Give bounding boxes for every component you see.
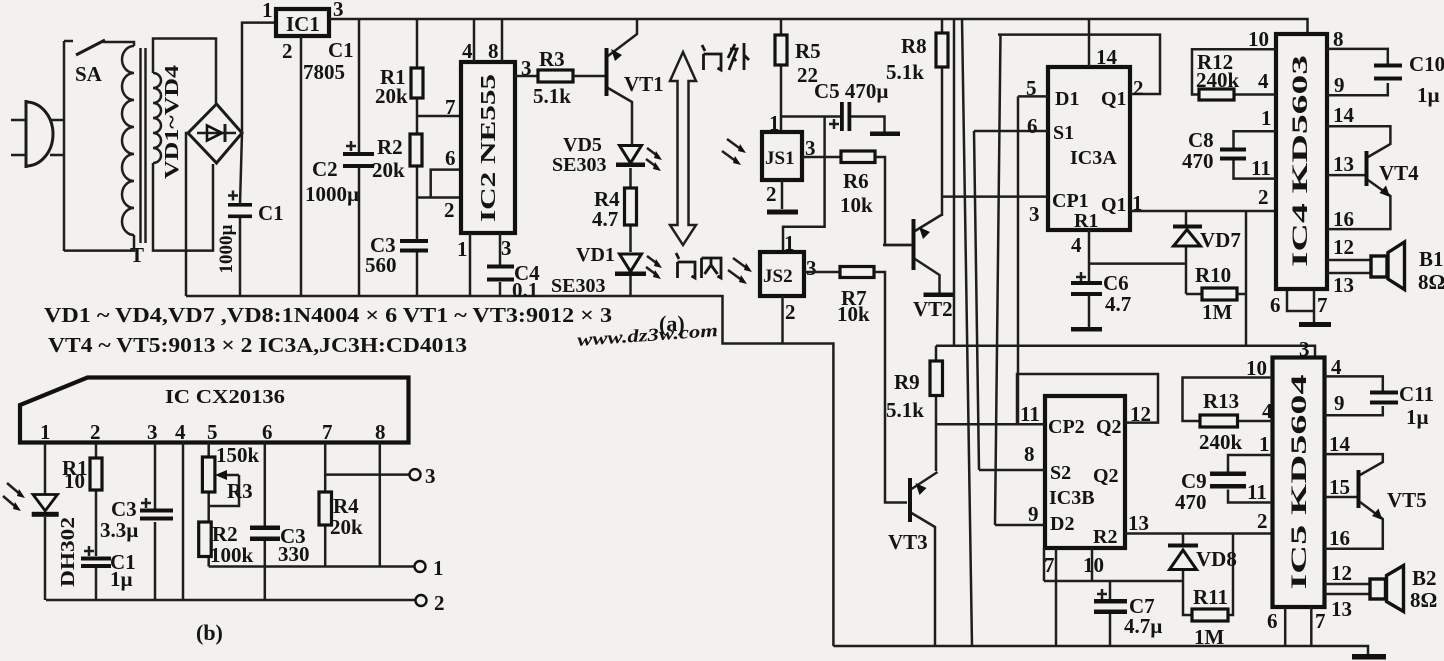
svg-text:9: 9 [1334, 391, 1345, 415]
svg-text:B1: B1 [1419, 247, 1444, 271]
svg-text:SA: SA [75, 62, 103, 86]
svg-text:1: 1 [433, 556, 444, 580]
svg-text:4.7µ: 4.7µ [1124, 614, 1162, 638]
svg-text:8: 8 [488, 39, 499, 63]
svg-text:C1: C1 [258, 201, 284, 225]
svg-text:11: 11 [1247, 480, 1267, 504]
svg-text:12: 12 [1333, 235, 1354, 259]
svg-text:D1: D1 [1055, 88, 1079, 110]
svg-text:2: 2 [434, 591, 445, 615]
svg-text:0.1: 0.1 [512, 278, 538, 302]
svg-text:1000µ: 1000µ [305, 182, 359, 206]
svg-text:6: 6 [1267, 609, 1278, 633]
svg-text:1: 1 [1261, 106, 1272, 130]
svg-text:240k: 240k [1199, 430, 1243, 454]
svg-text:330: 330 [278, 542, 310, 566]
svg-text:SE303: SE303 [552, 154, 606, 176]
svg-text:8Ω: 8Ω [1410, 588, 1437, 612]
svg-text:9: 9 [1028, 502, 1039, 526]
svg-text:VD7: VD7 [1200, 228, 1241, 252]
svg-text:16: 16 [1329, 526, 1350, 550]
svg-text:IC3A: IC3A [1070, 147, 1117, 169]
svg-text:20k: 20k [375, 84, 408, 108]
svg-text:10: 10 [1083, 553, 1104, 577]
svg-text:4.7: 4.7 [1105, 292, 1131, 316]
svg-text:4.7: 4.7 [592, 207, 618, 231]
svg-text:13: 13 [1333, 152, 1354, 176]
svg-text:2: 2 [90, 420, 101, 444]
svg-text:6: 6 [262, 420, 273, 444]
svg-text:2: 2 [785, 300, 796, 324]
svg-text:Q1: Q1 [1101, 194, 1127, 216]
svg-text:20k: 20k [330, 515, 363, 539]
svg-text:1: 1 [769, 111, 780, 135]
svg-text:11: 11 [1020, 402, 1040, 426]
svg-text:VD1~VD4: VD1~VD4 [161, 65, 183, 179]
svg-text:100k: 100k [210, 543, 254, 567]
svg-text:3: 3 [425, 464, 436, 488]
svg-text:16: 16 [1333, 207, 1354, 231]
svg-text:3: 3 [1029, 202, 1040, 226]
svg-text:11: 11 [1251, 156, 1271, 180]
svg-text:15: 15 [1329, 475, 1350, 499]
svg-text:10k: 10k [837, 302, 870, 326]
svg-text:10: 10 [64, 469, 85, 493]
svg-text:560: 560 [365, 253, 397, 277]
svg-text:2: 2 [444, 198, 455, 222]
svg-text:8Ω: 8Ω [1418, 270, 1444, 294]
svg-text:Q1: Q1 [1101, 88, 1127, 110]
svg-text:4: 4 [1258, 69, 1269, 93]
svg-text:C1: C1 [328, 38, 354, 62]
svg-text:4: 4 [462, 39, 473, 63]
svg-text:R11: R11 [1193, 585, 1228, 609]
svg-text:VT2: VT2 [913, 297, 953, 321]
svg-text:3: 3 [806, 256, 817, 280]
svg-text:3: 3 [1299, 337, 1310, 361]
svg-text:470: 470 [1175, 490, 1207, 514]
svg-text:2: 2 [766, 182, 777, 206]
svg-text:2: 2 [1257, 509, 1268, 533]
svg-text:(b): (b) [196, 620, 223, 645]
svg-text:2: 2 [1133, 76, 1144, 100]
svg-text:13: 13 [1128, 511, 1149, 535]
svg-text:5.1k: 5.1k [886, 398, 924, 422]
svg-text:IC3B: IC3B [1049, 487, 1095, 509]
svg-text:20k: 20k [372, 158, 405, 182]
svg-text:1: 1 [1132, 191, 1143, 215]
svg-text:IC2 NE555: IC2 NE555 [476, 74, 500, 222]
svg-text:VD8: VD8 [1196, 547, 1237, 571]
svg-text:R2: R2 [377, 135, 403, 159]
svg-text:SE303: SE303 [551, 275, 605, 297]
svg-text:7: 7 [445, 95, 456, 119]
svg-text:1000µ: 1000µ [216, 224, 237, 273]
svg-text:R2: R2 [1093, 526, 1117, 548]
svg-text:470: 470 [1182, 149, 1214, 173]
svg-text:IC1: IC1 [286, 12, 320, 36]
svg-text:1: 1 [1259, 432, 1270, 456]
svg-text:13: 13 [1333, 273, 1354, 297]
svg-text:2: 2 [1258, 185, 1269, 209]
svg-text:5: 5 [1026, 76, 1037, 100]
svg-text:8: 8 [375, 420, 386, 444]
svg-text:R3: R3 [539, 47, 565, 71]
svg-text:7805: 7805 [303, 60, 345, 84]
svg-text:4: 4 [1262, 399, 1273, 423]
svg-text:1: 1 [457, 237, 468, 261]
svg-text:3: 3 [501, 236, 512, 260]
svg-text:3.3µ: 3.3µ [100, 518, 138, 542]
svg-text:150k: 150k [216, 443, 260, 467]
svg-text:1µ: 1µ [110, 567, 133, 591]
svg-text:1: 1 [262, 0, 273, 22]
svg-text:VT1: VT1 [624, 72, 664, 96]
svg-text:6: 6 [445, 146, 456, 170]
svg-text:R1: R1 [1074, 210, 1098, 232]
svg-text:9: 9 [1334, 73, 1345, 97]
svg-text:R13: R13 [1203, 389, 1239, 413]
svg-text:1µ: 1µ [1417, 83, 1440, 107]
svg-text:3: 3 [147, 420, 158, 444]
svg-text:VT3: VT3 [888, 530, 928, 554]
svg-text:VT5: VT5 [1387, 488, 1427, 512]
svg-text:12: 12 [1331, 561, 1352, 585]
svg-text:8: 8 [1024, 442, 1035, 466]
svg-text:IC CX20136: IC CX20136 [165, 386, 285, 408]
svg-text:VD1: VD1 [576, 244, 615, 266]
svg-text:14: 14 [1333, 103, 1355, 127]
svg-text:VD5: VD5 [563, 134, 602, 156]
svg-text:C2: C2 [312, 157, 338, 181]
svg-text:C10: C10 [1409, 52, 1444, 76]
svg-text:5.1k: 5.1k [533, 84, 571, 108]
svg-text:12: 12 [1130, 402, 1151, 426]
svg-text:7: 7 [1044, 553, 1055, 577]
svg-text:C5 470µ: C5 470µ [814, 79, 889, 103]
svg-text:13: 13 [1331, 597, 1352, 621]
svg-text:DH302: DH302 [57, 517, 79, 587]
svg-text:JS2: JS2 [763, 266, 793, 287]
svg-text:VT4: VT4 [1379, 161, 1419, 185]
svg-text:4: 4 [175, 420, 186, 444]
svg-text:14: 14 [1329, 432, 1351, 456]
svg-text:10: 10 [1248, 27, 1269, 51]
svg-text:7: 7 [1317, 293, 1328, 317]
svg-text:240k: 240k [1196, 68, 1240, 92]
svg-text:5.1k: 5.1k [886, 60, 924, 84]
svg-text:JS1: JS1 [765, 148, 795, 169]
svg-text:CP1: CP1 [1052, 190, 1089, 212]
svg-text:5: 5 [207, 420, 218, 444]
svg-text:2: 2 [282, 39, 293, 63]
svg-text:Q2: Q2 [1096, 416, 1122, 438]
svg-text:CP2: CP2 [1048, 416, 1085, 438]
svg-text:VD1 ~ VD4,VD7 ,VD8:1N4004 × 6: VD1 ~ VD4,VD7 ,VD8:1N4004 × 6 VT1 ~ VT3:… [44, 303, 612, 327]
svg-text:R5: R5 [795, 39, 821, 63]
svg-text:4: 4 [1331, 355, 1342, 379]
svg-text:6: 6 [1027, 114, 1038, 138]
svg-text:VT4 ~ VT5:9013 × 2 IC3A,JC3H:C: VT4 ~ VT5:9013 × 2 IC3A,JC3H:CD4013 [48, 333, 467, 357]
svg-text:R3: R3 [227, 479, 253, 503]
svg-text:7: 7 [1315, 609, 1326, 633]
svg-text:B2: B2 [1412, 566, 1437, 590]
svg-text:3: 3 [521, 56, 532, 80]
svg-text:7: 7 [322, 420, 333, 444]
svg-text:R6: R6 [843, 169, 869, 193]
svg-text:14: 14 [1096, 45, 1118, 69]
svg-text:10k: 10k [840, 193, 873, 217]
svg-text:IC4 KD5603: IC4 KD5603 [1287, 55, 1312, 267]
svg-text:8: 8 [1333, 27, 1344, 51]
svg-text:R8: R8 [901, 34, 927, 58]
svg-text:Q2: Q2 [1093, 465, 1119, 487]
svg-text:C11: C11 [1399, 382, 1434, 406]
svg-text:R10: R10 [1195, 263, 1231, 287]
svg-text:S1: S1 [1053, 122, 1074, 144]
svg-text:R9: R9 [894, 370, 920, 394]
svg-text:IC5 KD5604: IC5 KD5604 [1286, 375, 1311, 590]
svg-text:D2: D2 [1050, 513, 1074, 535]
svg-text:T: T [130, 243, 144, 267]
svg-text:6: 6 [1270, 293, 1281, 317]
svg-text:1: 1 [40, 420, 51, 444]
svg-text:1µ: 1µ [1406, 405, 1429, 429]
svg-text:4: 4 [1071, 233, 1082, 257]
svg-text:S2: S2 [1050, 462, 1071, 484]
svg-text:1M: 1M [1202, 300, 1233, 324]
